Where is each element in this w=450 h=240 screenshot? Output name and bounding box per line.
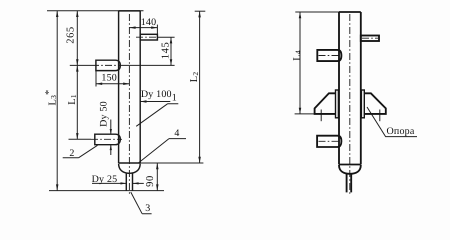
svg-text:L2: L2	[189, 72, 200, 83]
svg-text:Опора: Опора	[386, 126, 414, 137]
svg-text:3: 3	[145, 203, 150, 214]
svg-text:4: 4	[174, 128, 179, 139]
svg-text:150: 150	[101, 73, 117, 84]
svg-text:140: 140	[141, 17, 157, 28]
svg-text:L4: L4	[292, 50, 303, 61]
svg-text:90: 90	[145, 175, 156, 187]
svg-text:Dy 100: Dy 100	[141, 89, 172, 100]
svg-text:L1: L1	[67, 94, 78, 105]
svg-text:Dy 50: Dy 50	[98, 101, 109, 127]
svg-text:Dy 25: Dy 25	[92, 174, 118, 185]
svg-text:2: 2	[69, 148, 74, 159]
svg-text:1: 1	[172, 92, 177, 103]
svg-text:145: 145	[160, 42, 171, 60]
svg-text:265: 265	[66, 26, 77, 44]
